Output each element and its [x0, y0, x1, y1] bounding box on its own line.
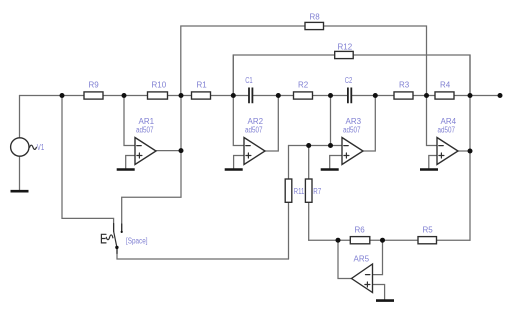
wire AR4 inverting feedback x=426 [427, 96, 438, 146]
resistor R11 [285, 179, 292, 202]
wire AR4 output to node x=470 [458, 150, 470, 152]
op-amp AR3 [342, 138, 363, 165]
node junction switch bottom [115, 246, 118, 249]
wire AR3 non-inverting to ground [330, 156, 342, 169]
wire AR5 non-inverting to ground [373, 285, 385, 300]
wire V1 top lead [19, 96, 21, 139]
switch SW1 terminal B stub [121, 224, 123, 232]
svg-text:C2: C2 [345, 76, 353, 85]
wire node A drop x=62 to switch [62, 96, 114, 232]
svg-text:ad507: ad507 [245, 126, 263, 135]
svg-text:R1: R1 [197, 81, 208, 90]
op-amp AR5 [352, 264, 373, 293]
node junction AR1 output [179, 148, 184, 153]
resistor R2 [294, 92, 313, 99]
wire AR1 non-inverting to ground [126, 156, 135, 169]
resistor R1 [192, 92, 211, 99]
wire x=330 drop to AR3 input [330, 96, 332, 146]
svg-text:R11: R11 [294, 187, 305, 196]
node junction bottom right [380, 238, 385, 243]
ground (V1) [11, 190, 29, 193]
ground (AR3) [321, 168, 339, 171]
wire AR3 output up x=375 [363, 96, 375, 152]
resistor R5 [418, 237, 437, 244]
wire AR2 inverting feedback x=233 [233, 55, 244, 146]
node junction AR3 input [328, 143, 333, 148]
node junction x=124 main [122, 93, 127, 98]
wire AR5 inverting input from node [373, 240, 383, 274]
svg-text:R2: R2 [298, 81, 309, 90]
resistor R12 [335, 51, 354, 58]
resistor R8 [305, 22, 324, 29]
svg-text:R4: R4 [440, 81, 451, 90]
op-amp AR1 [135, 138, 156, 165]
voltage source V1 [11, 138, 37, 156]
resistor R4 [435, 92, 454, 99]
wire switch bottom to R11 y=259 [117, 247, 289, 259]
wire x=181 down to switch row [122, 96, 181, 232]
ground (AR4) [420, 168, 438, 171]
svg-text:R10: R10 [152, 81, 167, 90]
wire R7 branch [308, 146, 310, 241]
resistor R7 [305, 179, 312, 202]
node junction x=233 main [231, 93, 236, 98]
svg-text:R9: R9 [89, 81, 100, 90]
resistor R9 [84, 92, 103, 99]
svg-text:C1: C1 [245, 76, 253, 85]
switch SW1 actuator link [106, 235, 113, 240]
node junction x=181 main [179, 93, 184, 98]
op-amp AR4 [437, 138, 458, 165]
switch SW1 terminal A stub [113, 224, 115, 232]
svg-text:AR5: AR5 [354, 255, 370, 264]
switch SW1 blade [114, 231, 117, 247]
wire AR4 non-inverting to ground [429, 156, 437, 169]
svg-text:ad507: ad507 [438, 126, 456, 135]
wire R8 feedback row y=26 [181, 26, 427, 96]
node junction x=278 main [276, 93, 281, 98]
wire x=470 from R12 row down to bottom row [469, 55, 471, 240]
switch SW1 actuator E [101, 234, 106, 243]
node junction x=470 main [468, 93, 473, 98]
capacitor C1 [249, 88, 252, 104]
wire R12 feedback row y=55 [233, 55, 470, 96]
svg-text:[Space]: [Space] [126, 236, 148, 245]
svg-text:ad507: ad507 [136, 126, 154, 135]
wire V1 bottom lead to ground [19, 156, 21, 190]
svg-text:R6: R6 [355, 226, 366, 235]
svg-text:ad507: ad507 [343, 126, 361, 135]
wire AR3 inverting node row y=145.5 [289, 145, 343, 147]
svg-text:R3: R3 [399, 81, 410, 90]
resistor R6 [350, 237, 370, 244]
resistor R10 [148, 92, 168, 99]
wire main bus y=95.5 [20, 95, 501, 97]
svg-text:R8: R8 [310, 13, 321, 22]
switch SW1 open contact end [121, 231, 123, 233]
wire AR2 non-inverting to ground [234, 156, 244, 169]
ground (AR2) [225, 168, 243, 171]
svg-text:R7: R7 [313, 187, 321, 196]
node junction x=375 main [373, 93, 378, 98]
ground (AR1) [117, 168, 135, 171]
wire R11 branch [288, 146, 290, 260]
node junction x=62 main [60, 93, 65, 98]
node junction bottom left [336, 238, 341, 243]
svg-text:V1: V1 [37, 143, 45, 152]
svg-text:R12: R12 [338, 43, 353, 52]
svg-text:R5: R5 [423, 226, 434, 235]
wire AR5 output up to node [338, 240, 352, 278]
resistor R3 [394, 92, 413, 99]
wire bottom row y=240 [309, 239, 470, 241]
capacitor C2 [348, 88, 351, 104]
switch SW1 bottom pin stub [116, 247, 118, 253]
wire AR2 output up x=278 [265, 96, 278, 152]
op-amp AR2 [244, 138, 265, 165]
wire AR1 inverting feedback x=124 [124, 96, 135, 146]
ground (AR5) [376, 299, 394, 302]
node junction x=330 main [328, 93, 333, 98]
node output terminal [498, 93, 503, 98]
node junction AR4 output [468, 149, 473, 154]
wire AR1 output to node x=181 [156, 150, 181, 152]
node junction x=426 main [424, 93, 429, 98]
node junction R7 top [306, 143, 311, 148]
